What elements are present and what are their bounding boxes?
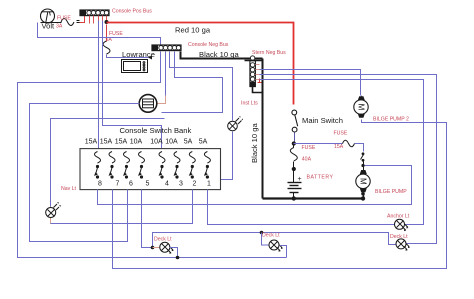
wire neg bus drop loop to switch bank feed area	[162, 52, 223, 113]
svg-text:BILGE PUMP: BILGE PUMP	[375, 189, 407, 195]
svg-text:Deck Lt: Deck Lt	[390, 234, 408, 240]
svg-text:8: 8	[98, 181, 102, 188]
wire stern bus to deck light 3 return	[260, 75, 437, 244]
lamp deck light 3	[396, 239, 410, 251]
switch bank fuses and switches x8	[95, 152, 211, 179]
svg-text:15A: 15A	[100, 139, 113, 146]
svg-text:Console Pos Bus: Console Pos Bus	[112, 9, 152, 15]
lamp deck light 2	[269, 240, 284, 252]
wire switch 8 to bilge pump manual feed	[98, 166, 412, 205]
battery BT1	[288, 171, 302, 199]
fuse F2 5A drop wire	[106, 25, 108, 42]
node battery plus	[292, 167, 296, 171]
node deck light 1 feed	[151, 246, 155, 250]
wire neg bus drop to deck-light return trunk	[18, 52, 287, 258]
wire switch 7 to bilge pump 2	[113, 120, 447, 269]
wire stern bus to anchor light return	[260, 80, 424, 225]
svg-text:40A: 40A	[302, 157, 312, 163]
wire voltmeter negative return	[38, 23, 161, 45]
svg-text:5: 5	[146, 181, 150, 188]
console pos bus	[80, 10, 109, 16]
svg-text:Console Switch Bank: Console Switch Bank	[120, 126, 192, 135]
svg-text:Deck Lt: Deck Lt	[154, 237, 172, 243]
bilge pump M1	[356, 170, 370, 199]
wire pos bus feed to switch bank col 4	[103, 21, 162, 149]
wire stern bus to black trunk	[253, 87, 263, 93]
wire battery to fuse F4	[294, 143, 343, 145]
svg-text:M: M	[357, 104, 366, 111]
wire switch 2 to nav light	[51, 190, 193, 224]
svg-text:Anchor Lt: Anchor Lt	[387, 214, 410, 220]
svg-text:Nav Lt: Nav Lt	[61, 186, 77, 192]
fuse F3 40A	[290, 148, 297, 161]
svg-text:5A: 5A	[199, 139, 208, 146]
bilge pump M2	[354, 96, 368, 118]
wire switch 6 stub below box	[127, 190, 129, 242]
wire fuse F4 to float switch	[355, 144, 364, 152]
stern bus stub hairs	[256, 65, 260, 80]
fuse F1 terminal dash	[77, 21, 80, 23]
wire instrument lamp to switch bank	[221, 132, 233, 180]
stern bus red tick	[258, 79, 262, 83]
radio U2	[139, 95, 157, 113]
svg-text:5A: 5A	[184, 139, 193, 146]
main switch S1	[292, 110, 298, 132]
svg-text:Black 10 ga: Black 10 ga	[250, 123, 259, 163]
console switch bank box	[80, 149, 221, 190]
svg-text:Main Switch: Main Switch	[302, 116, 343, 125]
wire deck light 2 return	[280, 246, 287, 258]
fuse F4 15A	[343, 140, 355, 147]
voltmeter V1	[41, 9, 55, 23]
wire Red 10 ga main positive	[107, 23, 294, 105]
svg-text:BILGE PUMP 2: BILGE PUMP 2	[373, 117, 409, 123]
Lowrance power arrow	[148, 56, 152, 60]
wire pos bus feed to switch bank col 8	[98, 21, 100, 149]
svg-text:6: 6	[129, 181, 133, 188]
svg-text:Deck Lt: Deck Lt	[262, 233, 280, 239]
console neg bus	[152, 45, 181, 51]
fuse F1 3A	[61, 19, 74, 26]
svg-text:4: 4	[165, 181, 169, 188]
switch bank circuit numbers	[98, 181, 211, 188]
svg-text:3A: 3A	[56, 24, 63, 30]
svg-text:1: 1	[207, 181, 211, 188]
wire black 10 ga vertical trunk	[262, 59, 264, 199]
svg-text:15A: 15A	[85, 139, 98, 146]
svg-text:15A: 15A	[115, 139, 128, 146]
svg-text:15A: 15A	[334, 144, 344, 150]
node pump1 negative	[361, 196, 365, 200]
node deck light 1 return junction	[176, 256, 180, 260]
lamp nav light	[46, 202, 61, 223]
svg-text:M: M	[359, 178, 368, 185]
lamp deck light 1	[153, 242, 174, 254]
svg-text:7: 7	[116, 181, 120, 188]
lamp instrument lights	[228, 116, 243, 131]
node battery negative	[292, 196, 296, 200]
svg-text:FUSE: FUSE	[57, 16, 71, 22]
wire main switch to fuse node	[294, 133, 295, 144]
svg-text:Inst Lts: Inst Lts	[241, 101, 258, 107]
svg-text:FUSE: FUSE	[302, 145, 316, 151]
wire switch 5 to deck light 1	[142, 190, 159, 248]
switch bank fuse rating labels	[85, 139, 208, 146]
node battery positive top	[292, 141, 296, 145]
wire deck light 2 drop	[262, 233, 269, 246]
wire neg bus drop to nav light return	[51, 119, 165, 207]
stern neg bus	[245, 56, 263, 87]
svg-text:Console Neg Bus: Console Neg Bus	[188, 42, 229, 48]
svg-text:10A: 10A	[165, 139, 178, 146]
svg-text:Stern Neg Bus: Stern Neg Bus	[252, 50, 286, 56]
svg-text:BATTERY: BATTERY	[307, 175, 334, 181]
wire battery negative thick	[263, 197, 364, 199]
pos bus stub hairs	[90, 16, 107, 24]
node junction pos bus / red 10 ga	[105, 20, 109, 24]
wire fuse F2 to Lowrance power	[107, 55, 149, 58]
wire Black 10 ga to stern	[181, 52, 263, 59]
wire switch 1 to anchor light	[208, 190, 395, 225]
wire radio left feed from switch 6	[30, 104, 140, 242]
wire deck light 1 return	[170, 248, 178, 258]
wire voltmeter to fuse F1	[41, 22, 62, 24]
svg-text:FUSE: FUSE	[334, 131, 348, 137]
svg-text:3: 3	[179, 181, 183, 188]
svg-text:10A: 10A	[150, 139, 163, 146]
wire stern bus to bilge pump 2 return	[260, 70, 361, 96]
svg-text:Black 10 ga: Black 10 ga	[199, 50, 239, 59]
node deck light 2 tap	[260, 231, 264, 235]
Lowrance U1 fishfinder	[122, 60, 148, 73]
svg-text:Red 10 ga: Red 10 ga	[175, 26, 211, 35]
wire neg bus drop to instrument light return	[170, 52, 233, 121]
svg-text:10A: 10A	[130, 139, 143, 146]
lamp anchor light	[395, 219, 409, 231]
wire neg bus drop to radio right terminal	[165, 52, 167, 96]
float switch S2	[361, 152, 365, 170]
wire fuse F1 to console pos bus	[80, 16, 85, 23]
svg-text:Lowrance: Lowrance	[122, 50, 155, 59]
svg-text:2: 2	[193, 181, 197, 188]
fuse F2 5A	[103, 41, 110, 54]
wire deck lights feed line from deck light 1 junction	[153, 233, 397, 248]
